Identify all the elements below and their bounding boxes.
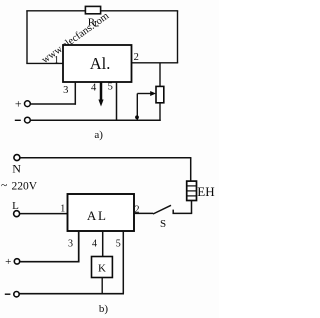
svg-text:4: 4 (92, 238, 97, 249)
svg-text:a): a) (94, 129, 103, 141)
switch S blade (153, 205, 171, 214)
terminal N (14, 155, 20, 161)
wire: pin 2 horizontal (a) (132, 62, 179, 64)
wire: circuit a top loop left vertical (26, 11, 28, 64)
wire: pin 2 horizontal to switch (b) (134, 212, 153, 214)
resistor RL (85, 6, 100, 13)
terminal minus (b) (14, 292, 19, 297)
terminal minus (a) (25, 117, 31, 123)
wire: pin 3 vertical (b) (78, 231, 80, 263)
svg-text:K: K (98, 262, 106, 274)
terminal + (a) (25, 101, 31, 107)
wire: pin 4 vertical to K (b) (102, 231, 104, 257)
wire: wiper vertical (136, 94, 138, 121)
svg-text:+: + (15, 97, 22, 111)
heater EH (187, 181, 197, 200)
wire: pin 1 horizontal (a) (26, 62, 63, 64)
wire: pin 5 vertical (a) (116, 82, 118, 121)
wire: L horizontal to pin 1 (b) (20, 213, 68, 215)
wire: pin 3 vertical (a) (74, 82, 76, 105)
op-amp block AL (b) (68, 194, 135, 231)
wire: + lead horizontal (a) (31, 103, 76, 105)
svg-text:5: 5 (108, 82, 113, 93)
svg-text:5: 5 (116, 238, 121, 249)
wire: right vertical down to EH (190, 158, 192, 182)
wire: K bottom stub (101, 278, 103, 294)
svg-text:4: 4 (91, 83, 97, 94)
svg-text:~: ~ (1, 180, 7, 192)
svg-text:L: L (94, 19, 99, 28)
svg-text:2: 2 (134, 52, 139, 63)
relay K (92, 257, 113, 278)
svg-text:N: N (12, 161, 21, 175)
terminal L (14, 211, 20, 217)
svg-text:220V: 220V (12, 180, 38, 192)
svg-text:AL: AL (87, 208, 108, 223)
wire: pot top stub (159, 63, 161, 87)
op-amp block AL (a) (63, 45, 132, 82)
svg-text:3: 3 (68, 238, 73, 249)
switch right contact (172, 210, 174, 214)
svg-text:S: S (160, 218, 166, 230)
wire: circuit a right vertical (177, 11, 179, 63)
svg-text:1: 1 (54, 55, 59, 66)
terminal + (b) (14, 259, 19, 264)
svg-text:Al.: Al. (90, 54, 111, 73)
svg-text:1: 1 (60, 203, 65, 214)
svg-text:3: 3 (63, 85, 68, 96)
potentiometer RP (a) (156, 86, 164, 102)
svg-text:+: + (5, 256, 11, 268)
wire: N top horizontal (20, 157, 191, 159)
wire: pot bottom stub (159, 103, 161, 121)
wire: switch to EH stub (173, 212, 193, 214)
svg-text:EH: EH (197, 184, 214, 199)
wire: minus bottom horizontal (b) (20, 293, 125, 295)
wiper arrow of potentiometer (137, 93, 151, 95)
svg-text:L: L (12, 200, 19, 212)
wire: pin 5 vertical (b) (122, 231, 124, 294)
wire: + lead horizontal (b) (20, 261, 80, 263)
pin 4 arrow (a) (100, 82, 103, 102)
wire: EH bottom stub (191, 201, 193, 214)
wire: circuit a top horizontal left of RL (26, 10, 86, 12)
svg-text:b): b) (99, 303, 109, 315)
wire: minus lead horizontal (a) (31, 119, 161, 121)
junction dot (135, 115, 139, 119)
wire: circuit a top horizontal right of RL (101, 10, 179, 12)
